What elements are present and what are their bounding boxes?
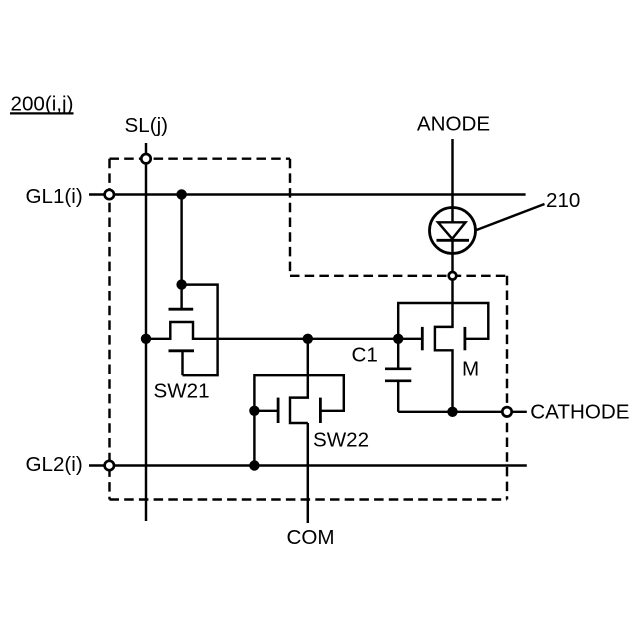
capacitor C1: bottom lead bbox=[397, 381, 399, 412]
wire SW22 gate to GL2 bbox=[253, 411, 255, 466]
wire node to C1 / M gate bbox=[308, 338, 398, 340]
terminal CATHODE open circle bbox=[502, 407, 511, 416]
wire ANODE vertical bbox=[451, 139, 453, 208]
junction dot node / SW22 channel bbox=[303, 334, 313, 344]
terminal LED cathode small circle bbox=[449, 272, 457, 280]
LED 210: triangle bbox=[438, 222, 466, 239]
svg-text:ANODE: ANODE bbox=[417, 113, 490, 136]
svg-text:C1: C1 bbox=[352, 344, 378, 367]
svg-text:SW22: SW22 bbox=[313, 428, 369, 451]
svg-text:200(i,j): 200(i,j) bbox=[11, 93, 74, 116]
junction dot SW22 gate / GL2 bbox=[249, 460, 259, 470]
terminal SL(j) open circle bbox=[141, 154, 150, 163]
svg-text:GL2(i): GL2(i) bbox=[26, 453, 83, 476]
transistor SW22: gate tie loop bbox=[254, 375, 343, 411]
transistor M: gate tie loop bbox=[398, 303, 488, 339]
LED 210: circle bbox=[430, 208, 476, 254]
svg-text:COM: COM bbox=[287, 526, 335, 549]
transistor SW21: gate tie loop bbox=[182, 285, 218, 376]
transistor SW22 dual-gate: channel with hop bbox=[290, 339, 308, 423]
wire cathode horizontal bbox=[398, 411, 527, 413]
transistor M: left gate bar bbox=[421, 327, 424, 350]
svg-text:SL(j): SL(j) bbox=[125, 114, 168, 137]
wire COM vertical bbox=[307, 423, 309, 523]
transistor M: right gate bar bbox=[463, 327, 466, 350]
junction dot GL1 / SW21 gate bbox=[176, 189, 186, 199]
svg-text:SW21: SW21 bbox=[154, 379, 210, 402]
leader line to label 210 bbox=[477, 204, 545, 230]
transistor SW22: left gate bar bbox=[277, 398, 280, 423]
wire GL2(i) horizontal bbox=[89, 464, 527, 466]
wire GL1 to SW21 gate vertical bbox=[180, 195, 182, 285]
wire GL1(i) horizontal bbox=[89, 193, 526, 195]
wire SL(j) vertical bbox=[145, 143, 147, 521]
svg-text:210: 210 bbox=[546, 189, 580, 212]
LED 210: cathode lead bbox=[451, 240, 453, 275]
LED 210: cathode bar bbox=[437, 239, 470, 242]
junction dot SW22 gates bbox=[249, 406, 259, 416]
transistor SW21: bottom gate stub bbox=[181, 351, 183, 375]
svg-text:M: M bbox=[462, 358, 479, 381]
transistor M: left gate stub bbox=[398, 338, 422, 340]
terminal GL2(i) open circle bbox=[105, 461, 114, 470]
terminal GL1(i) open circle bbox=[105, 190, 114, 199]
svg-text:CATHODE: CATHODE bbox=[530, 400, 629, 423]
transistor M dual-gate: channel with hop bbox=[435, 276, 453, 412]
transistor SW21 dual-gate: top gate stub bbox=[180, 285, 182, 309]
junction dot C1 / M gate bbox=[393, 334, 403, 344]
transistor SW22: left gate stub bbox=[254, 410, 278, 412]
capacitor C1: top plate bbox=[385, 367, 411, 370]
transistor SW21: top gate bar bbox=[169, 308, 194, 311]
svg-text:GL1(i): GL1(i) bbox=[26, 185, 83, 208]
pixel boundary dashed box 200(i,j) bbox=[110, 157, 291, 159]
transistor SW22: right gate bar bbox=[319, 398, 322, 423]
junction dot SL / SW21 channel bbox=[141, 334, 151, 344]
junction dot M source / cathode bbox=[447, 407, 457, 417]
LED 210: anode lead inside bbox=[451, 208, 453, 223]
junction dot SW21 gate loop bbox=[176, 279, 186, 289]
transistor SW21: bottom gate bar bbox=[169, 349, 195, 352]
capacitor C1: bottom plate bbox=[385, 379, 411, 382]
capacitor C1: top lead bbox=[397, 339, 399, 369]
transistor SW21: channel with hop (SL to node) bbox=[146, 322, 308, 339]
